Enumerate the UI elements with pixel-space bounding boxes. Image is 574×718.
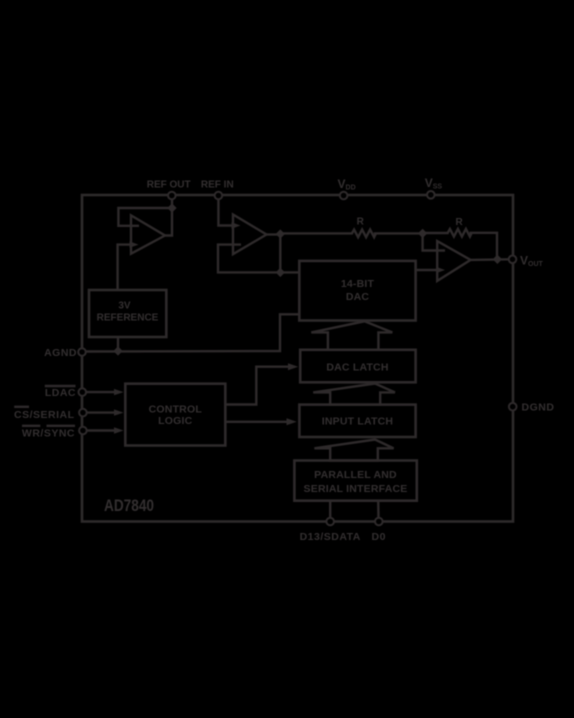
terminal REF OUT (168, 192, 176, 200)
terminal VSS (427, 191, 435, 199)
overline WR (22, 425, 40, 427)
svg-text:D0: D0 (372, 531, 386, 543)
svg-text:AGND: AGND (44, 347, 77, 359)
svg-text:LOGIC: LOGIC (158, 415, 192, 427)
svg-text:REF OUT: REF OUT (147, 179, 191, 190)
terminal CS (79, 409, 87, 417)
svg-text:AD7840: AD7840 (104, 497, 154, 515)
wire control logic to input latch (225, 421, 286, 423)
svg-text:CS/SERIAL: CS/SERIAL (14, 409, 75, 421)
terminal WR (79, 427, 87, 435)
wire control logic to DAC latch (225, 367, 288, 405)
wire node to A3 inverting input (423, 233, 445, 250)
svg-text:VOUT: VOUT (520, 253, 544, 268)
wire CS to control logic (87, 411, 115, 413)
svg-text:14-BIT: 14-BIT (341, 278, 375, 290)
terminal LDAC (79, 388, 87, 396)
terminal VOUT (509, 255, 517, 263)
arrow into A3 input (436, 267, 445, 273)
wire A1 output to REF OUT (165, 196, 172, 236)
arrow into A2 input (232, 222, 241, 228)
wire A3 output to VOUT (471, 258, 509, 261)
wire A2 output to R1 (280, 232, 353, 234)
node R junction (418, 229, 427, 238)
svg-text:CONTROL: CONTROL (149, 403, 203, 415)
bus arrow input latch to DAC latch (313, 384, 395, 405)
terminal REF IN (215, 192, 223, 200)
overline LDAC (45, 385, 76, 387)
svg-text:R: R (455, 217, 463, 228)
14-bit DAC box (299, 261, 415, 321)
chip outer border (82, 195, 513, 522)
terminal D0 (375, 518, 383, 526)
svg-text:PARALLEL AND: PARALLEL AND (314, 469, 397, 481)
3V reference box (89, 290, 166, 337)
svg-text:D13/SDATA: D13/SDATA (300, 531, 361, 543)
node AGND junction (113, 346, 122, 355)
overline CS (14, 406, 29, 408)
svg-text:SERIAL INTERFACE: SERIAL INTERFACE (304, 483, 408, 495)
svg-text:DAC: DAC (346, 291, 370, 303)
svg-text:VDD: VDD (338, 177, 356, 192)
svg-text:INPUT LATCH: INPUT LATCH (322, 416, 393, 428)
DAC latch box (300, 350, 415, 383)
node A2 feedback junction (276, 268, 285, 277)
node A1 output junction (167, 203, 176, 212)
wire A2 output (267, 233, 281, 235)
arrow into A1 input (130, 241, 139, 247)
wire A1 feedback to inverting input (118, 208, 172, 226)
overline SYNC (47, 425, 76, 427)
wire DAC out to A3 input (416, 269, 437, 271)
svg-text:LDAC: LDAC (45, 387, 76, 399)
input latch box (299, 405, 415, 437)
bus arrow interface to input latch (314, 440, 393, 461)
op-amp A2 REF IN buffer (233, 215, 267, 255)
arrow WR (114, 427, 124, 433)
wire WR to control logic (87, 429, 115, 431)
wire A2 output to DAC ref input (280, 271, 299, 273)
wire 3V reference to A1 noninverting input (118, 245, 130, 290)
op-amp A3 output amplifier (437, 241, 470, 281)
resistor R2 (448, 229, 472, 237)
wire AGND rail to DAC (86, 314, 299, 351)
wire R2 to A3 output node (470, 233, 498, 259)
terminal VDD (340, 192, 348, 200)
wire node to R2 (423, 232, 449, 234)
wire LDAC to control logic (86, 391, 114, 393)
svg-text:R: R (357, 217, 365, 228)
svg-text:WR/SYNC: WR/SYNC (22, 427, 75, 439)
wire A2 feedback loop (218, 235, 280, 273)
resistor R1 (352, 230, 376, 238)
arrow CS (114, 409, 124, 415)
bus arrow DAC latch to DAC (311, 321, 392, 350)
wire R1 to node (374, 232, 423, 234)
arrow into DAC latch (288, 363, 298, 370)
op-amp A1 reference buffer (131, 215, 165, 253)
terminal DGND (509, 403, 517, 411)
svg-text:DAC LATCH: DAC LATCH (326, 361, 388, 373)
svg-text:DGND: DGND (522, 402, 555, 414)
control logic box (125, 384, 225, 446)
node A2 output junction (276, 229, 285, 238)
svg-text:REF IN: REF IN (201, 179, 234, 190)
node A3 output junction (493, 255, 502, 264)
parallel and serial interface box (294, 461, 416, 501)
svg-text:REFERENCE: REFERENCE (97, 313, 159, 324)
wire REF IN to A2 input (218, 199, 232, 225)
svg-text:3V: 3V (118, 301, 131, 312)
terminal D13/SDATA (326, 518, 334, 526)
svg-text:VSS: VSS (425, 176, 443, 191)
terminal AGND (78, 348, 86, 356)
wire 3V reference to AGND rail (117, 337, 119, 351)
arrow into input latch (287, 418, 297, 425)
wire interface to D0 pin (377, 501, 380, 518)
wire interface to D13 pin (329, 501, 331, 518)
arrow LDAC (114, 389, 124, 395)
